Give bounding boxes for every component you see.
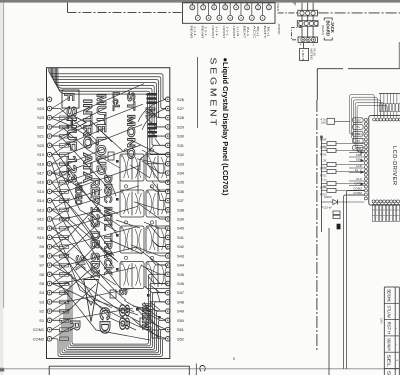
wire interior 30 — [116, 220, 140, 228]
LCD pin S50 (right) — [166, 318, 185, 323]
chain line right of jack board — [318, 12, 400, 14]
segment electrode mark 14 — [60, 236, 69, 240]
connector JA-2 pin 3 — [309, 21, 313, 25]
connector JA-3 pin 1 — [301, 38, 305, 42]
svg-text:BEAT: BEAT — [243, 26, 247, 39]
IC top pin 1 — [373, 118, 376, 121]
svg-text:PLUG: PLUG — [313, 49, 317, 58]
wire trace extra 15 — [88, 218, 114, 256]
braid link 20 — [52, 272, 70, 284]
braid link 7 — [52, 152, 70, 164]
svg-text:S14: S14 — [37, 198, 45, 203]
svg-text:S45: S45 — [177, 272, 184, 277]
svg-text:REAR: REAR — [190, 26, 194, 40]
wire to S51 — [143, 311, 166, 330]
LCD pin S20 (left) — [37, 143, 52, 148]
wire bottom bundle 1 — [52, 339, 166, 357]
wire from S17 — [52, 145, 141, 173]
wire to S43 — [131, 245, 166, 256]
segment electrode mark 12 — [60, 217, 69, 221]
segment electrode mark 7 — [60, 171, 69, 175]
electrode comb top 8 — [396, 93, 398, 118]
wire from S18 — [52, 149, 104, 164]
svg-text:M: M — [143, 107, 158, 118]
wire bottom bundle 8 — [52, 274, 166, 344]
braid link 12 — [52, 198, 70, 210]
braid link 11 — [52, 189, 70, 201]
digit node circles — [124, 256, 127, 259]
IC left pin 17 — [364, 181, 367, 184]
segment electrode mark 11 — [60, 208, 69, 212]
svg-text:BATT: BATT — [263, 26, 267, 39]
rail node — [320, 136, 322, 138]
LCD pin S9 (left) — [39, 244, 52, 249]
pin tag OSC — [353, 118, 364, 123]
wire from S22 — [52, 108, 106, 127]
wire to S32 — [132, 141, 166, 155]
connector JA-2 pin 1 — [299, 21, 303, 25]
wire from S14 — [52, 190, 102, 201]
svg-text:4.7u: 4.7u — [321, 166, 327, 170]
svg-text:FRONT: FRONT — [211, 26, 215, 39]
wire IC loop 3 — [353, 100, 380, 143]
label ACC B(+) — [253, 26, 261, 41]
wire interior 14 — [146, 118, 166, 127]
svg-text:F: F — [62, 93, 78, 102]
table row SEL — [384, 354, 399, 368]
wire interior 6 — [52, 164, 116, 260]
wire to S46 — [146, 268, 166, 284]
connector pin bottom 5 — [239, 3, 244, 21]
segment electrode mark 22 — [60, 309, 69, 313]
label FRONT (+)-R — [232, 26, 240, 39]
node marker B1 — [337, 224, 341, 230]
main board boundary (left edge chain) — [316, 69, 318, 100]
LCD pin S4 (left) — [39, 290, 52, 295]
signal arrow — [361, 171, 365, 174]
svg-text:0.9u: 0.9u — [321, 145, 327, 149]
LCD pin S37 (right) — [166, 198, 184, 203]
svg-text:SNS WVH: SNS WVH — [387, 338, 392, 351]
connector JA-3 pin 3 — [311, 38, 315, 42]
IC left pin 20 — [364, 193, 367, 196]
LCD pin S26 (right) — [166, 97, 184, 102]
LCD pin S22 (left) — [37, 124, 52, 129]
braid link 6 — [52, 143, 70, 155]
wire to S41 — [149, 224, 166, 237]
connector pin bottom 2 — [206, 3, 211, 21]
electrode comb top 4 — [383, 93, 385, 118]
LCD pin S6 (left) — [39, 272, 52, 277]
IC left pin 2 — [364, 122, 367, 125]
7-seg digit 2a — [120, 190, 144, 217]
connector pin bottom 6 — [249, 3, 254, 21]
IC left pin 14 — [364, 169, 367, 172]
svg-text:C O M: C O M — [198, 365, 208, 375]
LCD pin COM2 (left) — [33, 336, 52, 341]
IC left pin 12 — [364, 162, 367, 165]
svg-text:(+)-R: (+)-R — [236, 27, 240, 38]
svg-text:COM2: COM2 — [33, 336, 44, 341]
wire from S3 — [52, 288, 134, 302]
wire IC loop 4 — [355, 103, 384, 148]
svg-text:S50: S50 — [177, 318, 185, 323]
svg-text:1.5K: 1.5K — [321, 185, 327, 189]
wire interior 25 — [144, 286, 166, 293]
segment electrode mark 25 — [60, 337, 69, 341]
7-seg digit 2b — [146, 190, 170, 217]
svg-text:BOARD: BOARD — [326, 21, 331, 36]
svg-text:MUTE LOUD: MUTE LOUD — [94, 94, 108, 175]
resistor R704 — [333, 211, 340, 214]
wire to S47 — [151, 286, 166, 293]
segment glyph 2 — [110, 290, 116, 298]
svg-text:JPW701: JPW701 — [277, 24, 281, 36]
wire trace extra 4 — [52, 228, 126, 300]
bottom-left scan smudge — [0, 368, 4, 372]
LCD pin S19 (left) — [37, 152, 52, 157]
wire top bundle 5 (to S30) — [54, 68, 166, 136]
IC bottom pin 2 — [376, 200, 379, 203]
wire from S8 — [52, 223, 99, 256]
wire to S44 — [136, 247, 166, 265]
svg-text:S23: S23 — [37, 115, 44, 120]
wire to S31 — [155, 138, 166, 145]
wire jack feed 2 — [307, 3, 309, 37]
svg-text:S12: S12 — [37, 217, 44, 222]
connector JA-2 pin 2 — [304, 21, 308, 25]
wire top bundle 4 (to S29) — [53, 68, 166, 127]
wire interior 28 — [119, 170, 121, 190]
connector pin bottom 1 — [195, 3, 200, 21]
svg-text:S46: S46 — [177, 281, 184, 286]
wire from S20 — [52, 128, 105, 145]
electrode comb bottom 6 — [390, 203, 393, 222]
wire jack feed 1 — [301, 3, 303, 37]
segment electrode mark 15 — [60, 245, 69, 249]
svg-text:V2: V2 — [356, 132, 360, 136]
braid link 3 — [52, 115, 70, 127]
connector pin top 5 — [234, 3, 239, 10]
braid link 2 — [52, 106, 70, 118]
electrode comb top 7 — [393, 93, 395, 118]
wire IC loop 2 — [351, 97, 377, 138]
wire interior 31 — [110, 240, 142, 254]
wire bottom bundle 3 — [52, 320, 166, 353]
IC bottom pin 4 — [383, 200, 386, 203]
resistor R702 4.7u — [320, 166, 364, 178]
svg-text:S44: S44 — [177, 263, 185, 268]
capacitor C703 1.2K — [320, 159, 364, 171]
svg-text:OSC: OSC — [355, 118, 362, 122]
wire trace extra 5 — [52, 247, 134, 312]
svg-text:(+)-L: (+)-L — [215, 27, 219, 38]
pin label COM1 — [349, 187, 364, 191]
wire from S11 — [52, 206, 138, 228]
LCD pin S33 (right) — [166, 161, 184, 166]
7-seg digit 3b — [146, 226, 170, 253]
braid link 21 — [52, 281, 70, 293]
wire top bundle 3 (to S28) — [51, 68, 165, 118]
svg-text:FRONT: FRONT — [222, 26, 226, 39]
digit node circles — [124, 221, 127, 224]
table row RST H — [384, 322, 399, 336]
svg-text:S6: S6 — [39, 272, 44, 277]
IC left pin 11 — [364, 158, 367, 161]
wire interior 21 — [156, 220, 166, 228]
wire bottom bundle 4 — [52, 311, 166, 351]
label BATT B(+) — [263, 26, 271, 39]
LCD pin S38 (right) — [166, 207, 184, 212]
electrode comb bottom 1 — [372, 203, 375, 222]
svg-text:1.2K: 1.2K — [321, 159, 327, 163]
LCD pin S40 (right) — [166, 226, 185, 231]
segment electrode mark 19 — [60, 282, 69, 286]
wire from S7 — [52, 247, 136, 265]
svg-text:A.MUTE: A.MUTE — [301, 50, 305, 61]
braid link 5 — [52, 134, 70, 146]
wire to S50 — [138, 308, 166, 320]
svg-text:SK: SK — [73, 255, 88, 271]
connector pin top 6 — [245, 3, 250, 10]
IC bottom pin 3 — [379, 200, 382, 203]
wire interior 20 — [158, 200, 166, 210]
IC top pin 3 — [379, 118, 382, 121]
wire to S34 — [142, 161, 166, 173]
wire JA-2 to JA-3 loop (left) — [292, 26, 301, 40]
wire trace extra 14 — [96, 158, 116, 196]
wire interior 5 — [52, 155, 118, 232]
svg-text:S30: S30 — [177, 134, 185, 139]
svg-text:+: + — [396, 359, 398, 363]
pin tag GND — [353, 145, 364, 150]
LCD pin S45 (right) — [166, 272, 184, 277]
svg-text:S29: S29 — [177, 124, 184, 129]
svg-text:S24: S24 — [37, 106, 45, 111]
svg-text:0.1u: 0.1u — [321, 178, 327, 182]
svg-text:680P: 680P — [320, 138, 327, 142]
braid link 25 — [52, 318, 70, 330]
wire interior 13 — [150, 110, 166, 118]
resistor R703 1.5K — [320, 185, 364, 197]
capacitor C702 680P — [320, 138, 364, 150]
pin label SDA — [349, 158, 364, 162]
wire interior 19 — [150, 186, 166, 191]
connector pin bottom 4 — [228, 3, 233, 21]
wire interior 3 — [52, 136, 110, 190]
LCD pin S25 (left) — [37, 97, 52, 102]
7-seg digit 4b — [146, 262, 170, 289]
connector JA-1 pin 1 — [300, 11, 304, 15]
wire from S2 — [52, 284, 96, 311]
label BEAT IN-1 — [243, 26, 251, 39]
segment electrode mark 8 — [60, 181, 69, 185]
svg-text:COM1: COM1 — [33, 327, 44, 332]
wire interior 34 — [130, 165, 150, 178]
wire: horizontal chain line to connector PW701 — [68, 11, 183, 13]
segment electrode mark 3 — [60, 134, 69, 138]
wire from S9 — [52, 227, 137, 247]
segment dot marks — [116, 160, 119, 163]
wire to S35 — [147, 163, 166, 182]
svg-text:S3: S3 — [39, 299, 44, 304]
svg-text:S7: S7 — [39, 263, 44, 268]
connector pin top 4 — [223, 3, 228, 10]
braid link 26 — [52, 327, 70, 339]
svg-text:COM2: COM2 — [353, 191, 362, 195]
label FRONT (+)-L — [211, 26, 219, 39]
connector pin top 1 — [190, 3, 195, 10]
electrode comb bottom 8 — [397, 203, 400, 222]
svg-text:LcL: LcL — [111, 92, 121, 112]
pin tag V1 — [353, 125, 364, 130]
comb rail top — [379, 92, 400, 94]
wire trace extra 16 — [124, 300, 152, 312]
svg-text:S5: S5 — [39, 281, 44, 286]
table row S5V — [384, 371, 399, 375]
IC left pin 6 — [364, 138, 367, 141]
wire trace extra 9 — [138, 99, 166, 122]
IC left pin 3 — [364, 126, 367, 129]
electrode comb top 5 — [386, 93, 388, 118]
svg-text:S2: S2 — [39, 309, 44, 314]
wire trace extra 11 — [144, 302, 166, 320]
svg-text:CD: CD — [96, 307, 113, 334]
svg-text:DISC MTL TRACK: DISC MTL TRACK — [102, 175, 114, 275]
LCD pin S48 (right) — [166, 299, 184, 304]
wire interior 27 — [150, 305, 166, 311]
LCD pin S13 (left) — [37, 207, 52, 212]
wire interior 4 — [52, 146, 118, 215]
IC bottom pin 1 — [372, 200, 375, 203]
svg-text:IN-1: IN-1 — [246, 27, 250, 38]
LCD pin S52 (right) — [166, 336, 184, 341]
svg-text:S25: S25 — [37, 97, 44, 102]
connector JA-1 body — [298, 10, 318, 16]
svg-text:5: 5 — [233, 357, 235, 361]
svg-text:S35: S35 — [177, 180, 184, 185]
wire from S1 — [52, 308, 133, 320]
IC bottom pin 8 — [397, 200, 400, 203]
connector pin top 2 — [201, 3, 206, 10]
wire from S16 — [52, 169, 103, 182]
segment glyph 1 — [108, 152, 114, 160]
svg-text:S47: S47 — [177, 290, 184, 295]
braid link 9 — [52, 171, 70, 183]
wire bottom bundle 7 — [52, 284, 166, 346]
svg-text:S51: S51 — [177, 327, 184, 332]
svg-text:B(+): B(+) — [266, 27, 270, 37]
svg-text:S52: S52 — [177, 336, 184, 341]
wire to S45 — [141, 265, 166, 274]
wire COM1 — [347, 191, 365, 369]
wire top bundle 7 (to S32) — [57, 68, 166, 155]
label REAR (+)-L — [190, 26, 198, 40]
wire to S48 — [156, 288, 166, 302]
wire jack feed 3 — [312, 3, 314, 37]
electrode comb bottom 3 — [379, 203, 382, 222]
wire to S42 — [154, 243, 166, 247]
table row SE/CHK — [384, 289, 399, 303]
segment electrode mark 10 — [60, 199, 69, 203]
svg-text:FRB: FRB — [356, 153, 362, 157]
IC top pin 5 — [386, 118, 389, 121]
wire to S33 — [137, 159, 166, 164]
svg-text:S39: S39 — [177, 217, 184, 222]
pin label CLK — [349, 177, 364, 181]
wire bottom bundle 5 — [52, 302, 166, 350]
braid link 16 — [52, 235, 70, 247]
svg-text:S42: S42 — [177, 244, 184, 249]
wire trace extra 12 — [138, 310, 166, 329]
segment electrode mark 16 — [60, 254, 69, 258]
wire interior 22 — [152, 240, 166, 247]
svg-text:S13: S13 — [37, 207, 44, 212]
IC top pin 4 — [382, 118, 385, 121]
segment electrode mark 13 — [60, 227, 69, 231]
LCD pin S29 (right) — [166, 124, 184, 129]
svg-text:S11: S11 — [37, 226, 44, 231]
svg-text:LCD-DRIVER: LCD-DRIVER — [391, 146, 397, 185]
signal arrow — [361, 151, 365, 154]
label FRONT (-)-L — [222, 26, 230, 39]
svg-text:S19: S19 — [37, 152, 44, 157]
wire trace extra 10 — [142, 109, 166, 131]
main board boundary (top edge) — [317, 68, 400, 70]
pin label LCD — [349, 164, 364, 168]
svg-text:S18: S18 — [37, 161, 44, 166]
wire top bundle 8 (to S33) — [58, 68, 166, 164]
svg-text:S48: S48 — [177, 299, 184, 304]
pin label ADJ — [349, 149, 364, 153]
svg-text:PW-B: PW-B — [276, 3, 280, 11]
svg-text:(+)-L: (+)-L — [193, 27, 197, 38]
svg-text:S49: S49 — [177, 309, 184, 314]
wire interior 12 — [52, 274, 150, 340]
rail wire — [320, 136, 322, 232]
LCD pin S43 (right) — [166, 253, 184, 258]
wire to S52 — [148, 329, 166, 339]
LCD pin S5 (left) — [39, 281, 52, 286]
braid link 14 — [52, 217, 70, 229]
connector JA-2 pin 4 — [314, 21, 318, 25]
wire interior 2 — [52, 127, 120, 168]
pin label FIL C — [349, 169, 364, 173]
wire top bundle 2 (to S27) — [50, 68, 166, 109]
jack board bracket bottom — [324, 38, 332, 41]
wire to S40 — [144, 222, 166, 228]
svg-text:R: R — [66, 320, 83, 331]
svg-text:S32: S32 — [177, 152, 184, 157]
svg-text:S15: S15 — [37, 189, 44, 194]
segment electrode mark 6 — [60, 162, 69, 166]
wire from S10 — [52, 202, 100, 237]
wire interior 7 — [52, 182, 118, 262]
LCD pin S15 (left) — [37, 189, 52, 194]
svg-text:2P: 2P — [292, 2, 296, 6]
wire interior 15 — [148, 128, 166, 136]
connector pin top 3 — [212, 3, 217, 10]
segment electrode mark 4 — [60, 144, 69, 148]
IC bottom pin 5 — [386, 200, 389, 203]
LCD pin S32 (right) — [166, 152, 184, 157]
wire down from driver area — [328, 228, 330, 375]
wire from S23 — [52, 84, 144, 118]
connector JA-3 body — [298, 37, 317, 43]
connector pin top 7 — [256, 3, 261, 10]
wire trace extra 6 — [52, 265, 140, 322]
wire interior 24 — [148, 276, 166, 283]
